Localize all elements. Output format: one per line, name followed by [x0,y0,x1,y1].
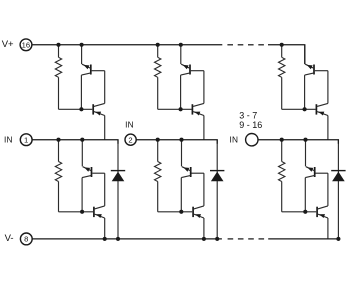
svg-text:2: 2 [128,135,132,144]
svg-text:V-: V- [5,233,14,244]
svg-text:8: 8 [24,235,28,244]
svg-text:V+: V+ [2,39,14,50]
svg-text:9 - 16: 9 - 16 [239,120,262,130]
svg-text:16: 16 [22,40,30,49]
svg-text:3 - 7: 3 - 7 [239,110,257,120]
svg-text:1: 1 [24,135,28,144]
svg-text:IN: IN [125,120,134,130]
svg-text:IN: IN [229,134,238,144]
svg-text:IN: IN [4,135,13,145]
